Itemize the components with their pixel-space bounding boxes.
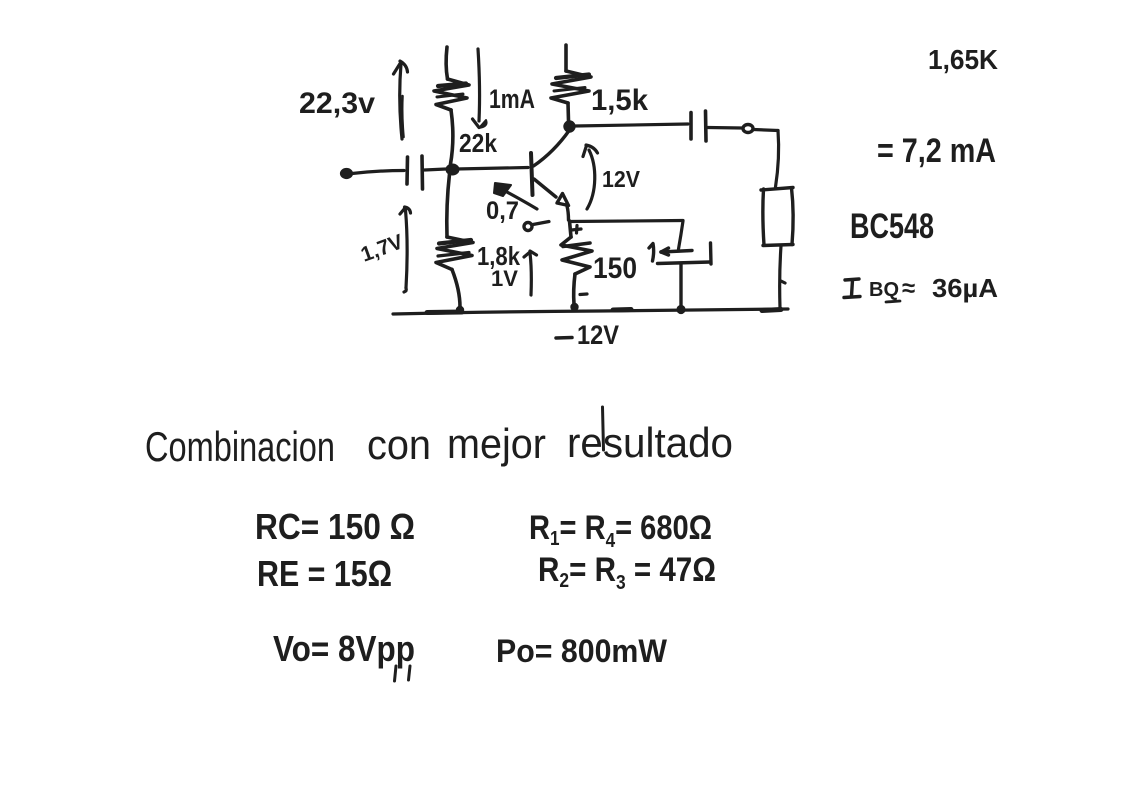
svg-text:con: con [367, 421, 431, 468]
svg-text:12V: 12V [577, 320, 619, 350]
wire load to bottom rail [780, 246, 785, 308]
bottom rail -12V [393, 304, 788, 314]
node collector junction [565, 122, 574, 131]
svg-text:12V: 12V [602, 166, 641, 192]
load resistor RL box [761, 188, 793, 246]
svg-text:R1= R4= 680Ω: R1= R4= 680Ω [529, 509, 712, 552]
transistor Q1 BC548 base bar [531, 153, 533, 195]
node base junction [447, 165, 459, 175]
wire input to C1 [352, 171, 404, 174]
svg-text:36µA: 36µA [932, 273, 998, 303]
plus polarity mark [572, 226, 582, 234]
current arrow 1mA [473, 49, 487, 128]
wire emitter to bypass capacitor [570, 221, 683, 250]
wire C2 to output terminal [708, 126, 742, 130]
svg-text:1mA: 1mA [489, 84, 535, 114]
resistor RE 150 [561, 221, 592, 304]
annotation IBQ = 36uA [844, 273, 998, 303]
wire C1 to base node [425, 169, 447, 170]
voltage arrow 12V curved [583, 145, 598, 209]
svg-text:1V: 1V [491, 266, 518, 291]
wire output terminal to load [754, 130, 779, 188]
resistor R3 1,5k [551, 45, 591, 121]
wire collector node to C2 [575, 124, 689, 126]
voltage arrow for 22,3V [394, 61, 408, 139]
svg-text:mejor: mejor [447, 420, 546, 467]
label 0,7 with arrow [486, 183, 537, 225]
svg-text:22k: 22k [459, 128, 497, 158]
coupling capacitor C1 [407, 156, 423, 189]
svg-text:= 7,2 mA: = 7,2 mA [877, 132, 996, 170]
bypass capacitor C3 [649, 243, 711, 308]
input terminal [341, 169, 352, 178]
svg-text:resultado: resultado [567, 419, 733, 466]
svg-text:1,7V: 1,7V [358, 230, 406, 266]
svg-text:1,5k: 1,5k [591, 84, 648, 117]
svg-text:RE = 15Ω: RE = 15Ω [257, 553, 392, 594]
resistor R2 1,8k [436, 174, 473, 307]
title Combinacion con mejor resultado [145, 407, 733, 470]
svg-text:0,7: 0,7 [486, 197, 519, 225]
svg-text:1,65K: 1,65K [928, 44, 998, 75]
net label -12V [556, 320, 619, 350]
voltage arrow for 1,7V [400, 207, 411, 292]
transistor Q1 emitter stroke with arrow [534, 179, 569, 220]
svg-text:Vo= 8Vpp: Vo= 8Vpp [273, 628, 415, 669]
resistor R1 22k [434, 47, 469, 164]
transistor Q1 collector stroke [534, 130, 570, 166]
svg-text:BQ: BQ [869, 279, 899, 301]
svg-text:BC548: BC548 [850, 207, 934, 246]
minus polarity mark [580, 292, 587, 296]
svg-text:≈: ≈ [902, 275, 915, 302]
voltage arrow for 1V [524, 251, 537, 295]
svg-text:Po= 800mW: Po= 800mW [496, 633, 668, 669]
svg-text:22,3v: 22,3v [299, 87, 375, 120]
svg-text:R2= R3 = 47Ω: R2= R3 = 47Ω [538, 551, 716, 594]
svg-text:Combinacion: Combinacion [145, 423, 335, 470]
output capacitor C2 [691, 111, 706, 141]
svg-text:150: 150 [593, 252, 637, 285]
svg-text:RC= 150 Ω: RC= 150 Ω [255, 506, 415, 547]
wire base node to transistor base [456, 168, 528, 170]
output terminal [743, 125, 753, 133]
probe circle at emitter junction [524, 222, 549, 231]
